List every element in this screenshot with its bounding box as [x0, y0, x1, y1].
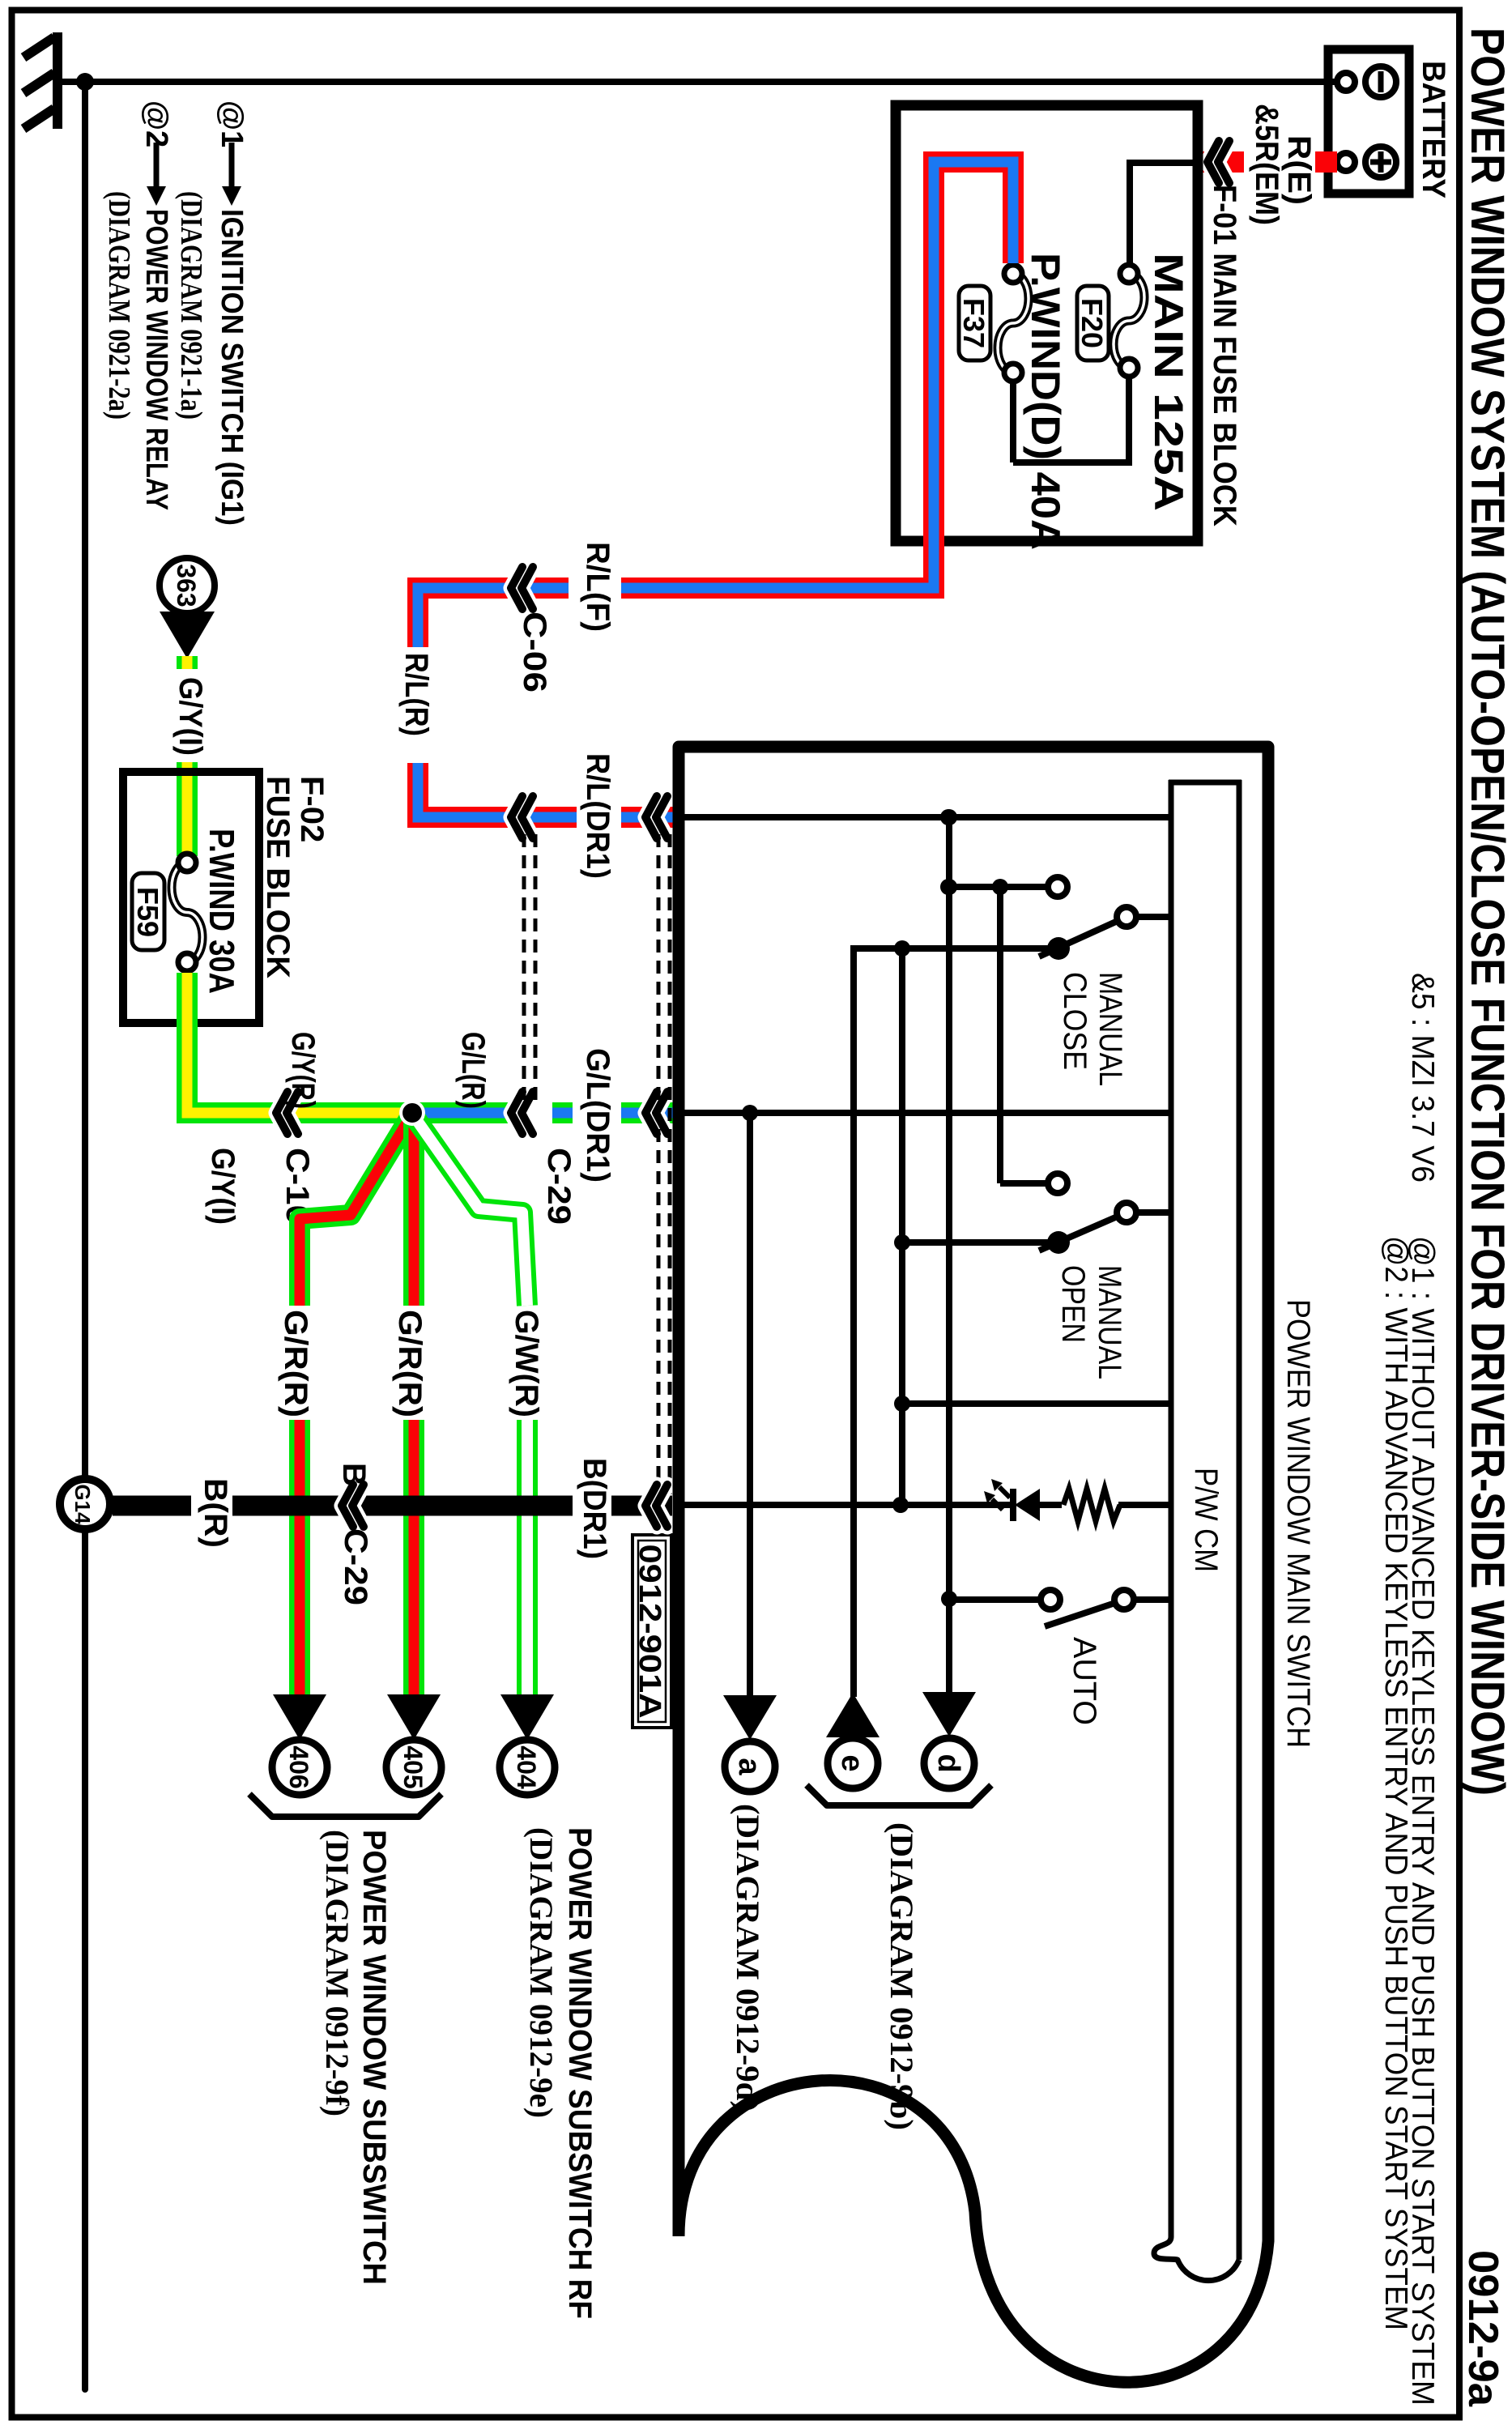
- wire mid horizontal 754: [899, 948, 905, 1505]
- connector circle 363 from ignition switch: [160, 558, 215, 613]
- svg-text:&5 : MZI 3.7 V6: &5 : MZI 3.7 V6: [1405, 973, 1440, 1183]
- connector chevron G/L C-29: [522, 1092, 533, 1134]
- wire F20 to F37 jog: [1126, 378, 1132, 462]
- svg-text:(DIAGRAM 0921-1a): (DIAGRAM 0921-1a): [174, 191, 208, 420]
- manual close contact circle: [1048, 877, 1067, 897]
- junction dots d-line: [941, 809, 957, 825]
- connector chevron R/L C-29 row: [522, 796, 533, 838]
- connector label 0912-901A box: [632, 1535, 671, 1728]
- wire manual open pivot row: [902, 1239, 1058, 1246]
- svg-text:R(E): R(E): [1281, 135, 1317, 205]
- manual open contact circle: [1048, 1174, 1067, 1193]
- label F20: [1077, 286, 1109, 360]
- connector chevron G/L into switch: [656, 1092, 667, 1134]
- svg-text:POWER WINDOW SUBSWITCH RF: POWER WINDOW SUBSWITCH RF: [562, 1827, 598, 2319]
- svg-text:MANUAL: MANUAL: [1092, 1265, 1127, 1379]
- arrow to subswitch 404: [500, 1694, 554, 1740]
- svg-text:F-02: F-02: [294, 776, 330, 842]
- connector circle 404: [500, 1740, 555, 1795]
- svg-text:G/Y(R): G/Y(R): [285, 1032, 321, 1109]
- svg-text:G/R(R): G/R(R): [392, 1310, 428, 1417]
- svg-text:d: d: [931, 1754, 965, 1772]
- svg-text:R/L(F): R/L(F): [580, 542, 615, 632]
- wire e-line: [850, 948, 857, 1697]
- svg-text:G/L(R): G/L(R): [455, 1032, 491, 1109]
- svg-text:0912-901A: 0912-901A: [632, 1545, 667, 1719]
- connector C-29 dashed lines: [534, 834, 538, 1102]
- wire manual open feed: [997, 887, 1003, 1183]
- wire AUTO switch: [1134, 1596, 1173, 1603]
- wire inside F-01 to fuse F20: [1130, 160, 1201, 166]
- AUTO switch contacts: [1041, 1590, 1060, 1609]
- fuse block F-02 box: [123, 772, 259, 1023]
- svg-text:POWER WINDOW SYSTEM (AUTO-OPEN: POWER WINDOW SYSTEM (AUTO-OPEN/CLOSE FUN…: [1461, 28, 1512, 1796]
- svg-text:406: 406: [284, 1745, 313, 1788]
- svg-text:F37: F37: [957, 298, 990, 348]
- connector circle d: [924, 1738, 974, 1788]
- junction dot LED row: [892, 1497, 909, 1513]
- junction dot 1733: [894, 1396, 910, 1412]
- arrow a: [723, 1695, 777, 1740]
- wire G/W to subswitch RF 404: [412, 1114, 527, 1306]
- ground connector G14: [60, 1479, 110, 1529]
- svg-text:@2: @2: [139, 100, 173, 147]
- svg-text:(DIAGRAM 0912-9b): (DIAGRAM 0912-9b): [884, 1822, 920, 2130]
- wire G/R to subswitch 406: [300, 1114, 412, 1306]
- svg-text:(DIAGRAM 0912-9f): (DIAGRAM 0912-9f): [319, 1830, 356, 2116]
- connector circle a: [725, 1741, 775, 1792]
- wire G/L row inside switch: [682, 1110, 1173, 1116]
- wire a-line: [747, 1113, 753, 1697]
- svg-text:@2 : WITH ADVANCED KEYLESS ENT: @2 : WITH ADVANCED KEYLESS ENTRY AND PUS…: [1378, 1236, 1413, 2330]
- svg-text:&5R(EM): &5R(EM): [1249, 104, 1284, 225]
- svg-text:G/W(R): G/W(R): [509, 1310, 544, 1417]
- svg-text:B(R): B(R): [198, 1478, 233, 1548]
- fuse block F-01 box: [896, 105, 1198, 541]
- svg-text:e: e: [835, 1754, 869, 1771]
- wire G/Y to fuse block F-02: [177, 656, 198, 669]
- wire d-line: [946, 817, 952, 1697]
- svg-text:OPEN: OPEN: [1055, 1265, 1091, 1343]
- ground bus wire to G14: [82, 82, 88, 2389]
- arrow to subswitch 406: [273, 1694, 326, 1740]
- wire R(E) battery to main fuse block: [1315, 151, 1337, 173]
- arrow d: [922, 1692, 976, 1737]
- svg-text:POWER WINDOW SUBSWITCH: POWER WINDOW SUBSWITCH: [356, 1830, 392, 2285]
- svg-text:(DIAGRAM 0912-9d): (DIAGRAM 0912-9d): [730, 1804, 766, 2112]
- brace e d: [807, 1785, 991, 1805]
- power window main switch box: [679, 747, 1268, 2382]
- label F37: [959, 286, 990, 360]
- svg-text:CLOSE: CLOSE: [1057, 972, 1092, 1070]
- arrow to subswitch 405: [387, 1694, 441, 1740]
- svg-text:C-29: C-29: [338, 1528, 373, 1605]
- connector chevron C-10: [287, 1092, 298, 1134]
- junction dot G/L row: [742, 1105, 758, 1121]
- junction node G wires: [399, 1100, 425, 1126]
- arrow e: [826, 1693, 880, 1737]
- svg-text:G/Y(I): G/Y(I): [205, 1148, 241, 1225]
- battery B+ B-: [1328, 49, 1409, 194]
- svg-text:G/L(DR1): G/L(DR1): [580, 1048, 615, 1183]
- wire LED resistor row: [1118, 1502, 1173, 1508]
- wire R/L row inside switch: [682, 814, 1173, 820]
- svg-text:MANUAL: MANUAL: [1092, 972, 1128, 1086]
- arrow from 363: [160, 612, 215, 658]
- svg-text:AUTO: AUTO: [1067, 1637, 1102, 1725]
- svg-text:B: B: [336, 1463, 372, 1486]
- svg-text:R/L(DR1): R/L(DR1): [580, 753, 615, 879]
- wire manual close feed: [945, 884, 1058, 890]
- fuse F59 P.WIND 30A: [172, 863, 202, 962]
- svg-text:BATTERY: BATTERY: [1416, 61, 1451, 198]
- fuse F20 MAIN 125A: [1114, 274, 1144, 368]
- connector chevron into F-01: [1218, 141, 1229, 183]
- connector circle e: [828, 1738, 878, 1788]
- svg-text:MAIN 125A: MAIN 125A: [1146, 253, 1191, 511]
- manual close switch: [1047, 937, 1070, 960]
- wire G/L from node to main switch: [412, 1102, 511, 1123]
- ground symbol: [23, 32, 57, 129]
- svg-text:P.WIND 30A: P.WIND 30A: [202, 829, 241, 994]
- junction dot manual open pivot: [894, 1234, 910, 1251]
- svg-text:(DIAGRAM 0921-2a): (DIAGRAM 0921-2a): [102, 191, 136, 420]
- junction dot R/L row: [940, 809, 956, 825]
- svg-text:P.WIND(D) 40A: P.WIND(D) 40A: [1023, 253, 1068, 550]
- svg-text:363: 363: [172, 564, 201, 607]
- junction dot pivot row: [894, 940, 910, 957]
- svg-text:F20: F20: [1075, 298, 1109, 348]
- svg-text:405: 405: [398, 1745, 428, 1788]
- connector chevron R/L into switch: [656, 796, 667, 838]
- LED indicator: [1015, 1489, 1040, 1521]
- svg-text:C-29: C-29: [541, 1148, 577, 1225]
- junction node ground bus: [76, 73, 94, 91]
- label F59: [132, 873, 164, 950]
- manual open switch: [1047, 1231, 1070, 1254]
- svg-text:(DIAGRAM 0912-9e): (DIAGRAM 0912-9e): [523, 1827, 560, 2118]
- connector chevron B into switch: [656, 1485, 667, 1527]
- svg-text:0912-9a: 0912-9a: [1459, 2250, 1506, 2407]
- wire manual close pivot row: [850, 945, 1058, 952]
- svg-text:POWER WINDOW RELAY: POWER WINDOW RELAY: [139, 209, 173, 510]
- wire battery negative to ground: [61, 79, 1338, 85]
- svg-text:a: a: [732, 1758, 766, 1775]
- connector circle 405: [386, 1740, 441, 1795]
- svg-text:IGNITION SWITCH (IG1): IGNITION SWITCH (IG1): [215, 209, 249, 526]
- connector circle 406: [272, 1740, 327, 1795]
- ground wire B thick bus: [611, 1496, 672, 1516]
- wire G/Y from F-02 to junction node: [187, 973, 412, 1113]
- fuse F37 P.WIND(D) 40A: [998, 274, 1029, 373]
- wire row to module 1733: [902, 1400, 1173, 1407]
- connector chevron C-06: [522, 567, 533, 609]
- svg-text:POWER WINDOW MAIN SWITCH: POWER WINDOW MAIN SWITCH: [1280, 1299, 1316, 1748]
- svg-text:B(DR1): B(DR1): [577, 1458, 612, 1559]
- svg-text:G/R(R): G/R(R): [278, 1310, 313, 1417]
- wire G/R to subswitch 405: [403, 1114, 424, 1306]
- wire R/L red-blue from fuse F37 to power window main switch: [621, 162, 1013, 588]
- svg-text:FUSE BLOCK: FUSE BLOCK: [260, 776, 296, 978]
- svg-text:F59: F59: [131, 887, 164, 937]
- svg-text:F-01 MAIN FUSE BLOCK: F-01 MAIN FUSE BLOCK: [1207, 185, 1242, 526]
- svg-text:P/W CM: P/W CM: [1188, 1468, 1224, 1572]
- connector chevron B C-29: [352, 1485, 364, 1527]
- svg-text:G/Y(I): G/Y(I): [172, 677, 208, 756]
- connector 0912-901A dashed lines: [668, 834, 672, 1494]
- svg-text:R/L(R): R/L(R): [398, 653, 434, 736]
- svg-text:404: 404: [512, 1745, 541, 1789]
- resistor: [1063, 1489, 1120, 1521]
- junction dots manual close feed: [992, 879, 1008, 895]
- P/W CM module bar: [1154, 780, 1242, 2281]
- svg-text:G14: G14: [70, 1484, 95, 1524]
- brace 406 405: [249, 1794, 441, 1817]
- svg-text:@1: @1: [215, 100, 249, 147]
- svg-text:C-06: C-06: [517, 612, 552, 693]
